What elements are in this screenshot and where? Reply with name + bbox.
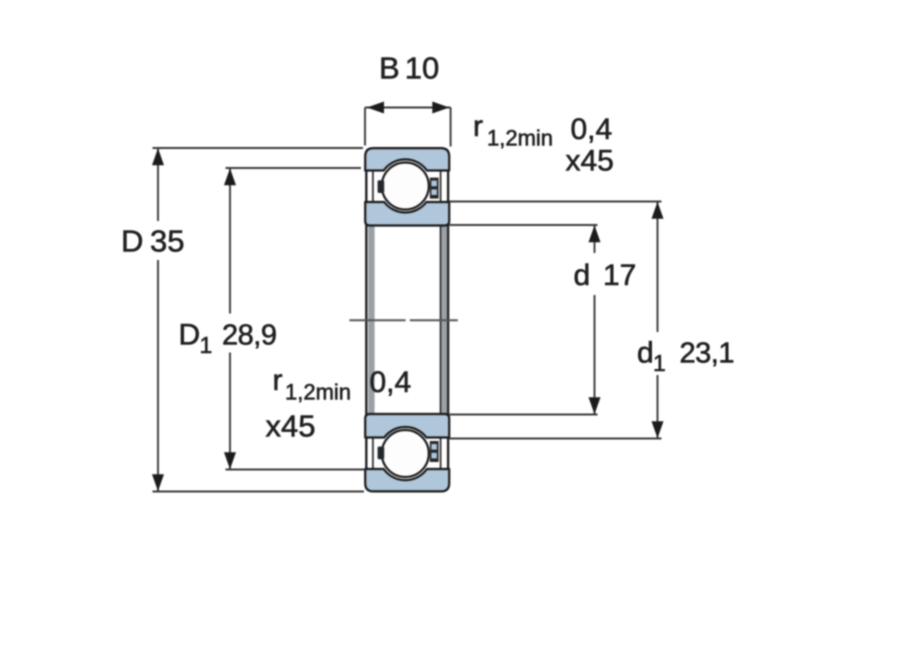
B arrow right bbox=[432, 102, 449, 114]
ball top bbox=[382, 163, 429, 210]
label d1 23,1 bbox=[637, 337, 734, 377]
D1 arrow bottom bbox=[224, 452, 236, 469]
label r 1,2min top right bbox=[473, 110, 553, 151]
d arrow bottom bbox=[589, 397, 601, 414]
svg-text:1: 1 bbox=[653, 350, 666, 376]
svg-text:23,1: 23,1 bbox=[680, 338, 734, 370]
svg-text:r: r bbox=[473, 110, 483, 143]
d1 arrow bottom bbox=[652, 421, 664, 438]
d1 extension lines bbox=[450, 201, 662, 203]
svg-text:r: r bbox=[273, 364, 283, 397]
label B 10 bbox=[379, 51, 439, 86]
inner ring top piece bbox=[365, 202, 449, 226]
svg-text:10: 10 bbox=[405, 51, 439, 86]
svg-text:x45: x45 bbox=[266, 409, 316, 444]
d1 arrow top bbox=[652, 202, 664, 219]
D1 dim line (broken for text) bbox=[229, 168, 231, 314]
d arrow top bbox=[589, 225, 601, 242]
svg-text:D: D bbox=[121, 224, 143, 259]
svg-text:1: 1 bbox=[200, 332, 213, 358]
label d 17 bbox=[574, 259, 637, 292]
d dim line (broken for text) bbox=[594, 225, 596, 253]
svg-text:17: 17 bbox=[603, 259, 636, 292]
B arrow left bbox=[367, 102, 384, 114]
d1 dim line (broken for text) bbox=[657, 202, 659, 333]
B dim line bbox=[365, 107, 451, 109]
svg-text:d: d bbox=[637, 337, 654, 370]
svg-text:35: 35 bbox=[150, 224, 184, 259]
svg-text:D: D bbox=[179, 319, 201, 352]
dimension lines bbox=[153, 108, 662, 492]
D arrow bottom bbox=[152, 474, 164, 491]
svg-text:x45: x45 bbox=[566, 145, 614, 178]
svg-text:B: B bbox=[379, 51, 400, 86]
inner ring bottom piece bbox=[365, 414, 449, 438]
D1 arrow top bbox=[224, 168, 236, 185]
svg-text:0,4: 0,4 bbox=[370, 366, 412, 399]
svg-text:28,9: 28,9 bbox=[222, 320, 276, 352]
svg-text:1,2min: 1,2min bbox=[285, 380, 351, 405]
bore shading band left bbox=[368, 226, 374, 414]
cage rivet right top bbox=[430, 178, 439, 199]
cage rivet left bottom bbox=[378, 447, 385, 460]
gap land lines bottom bbox=[373, 438, 441, 469]
ball bottom bbox=[382, 430, 429, 477]
svg-text:d: d bbox=[574, 259, 591, 292]
D1 extension lines bbox=[226, 167, 362, 169]
D arrow top bbox=[152, 148, 164, 165]
bearing side wall left bbox=[365, 166, 367, 474]
centerline bbox=[349, 319, 457, 321]
svg-text:0,4: 0,4 bbox=[571, 113, 613, 146]
B extension lines bbox=[364, 108, 366, 146]
bore shading band right bbox=[442, 226, 447, 414]
d extension lines bbox=[450, 224, 598, 226]
cage rivet left top bbox=[378, 180, 385, 193]
bearing side wall right bbox=[447, 166, 449, 474]
label D1 28,9 bbox=[179, 319, 277, 359]
gap land lines top bbox=[373, 171, 441, 202]
outer ring bottom piece bbox=[365, 469, 449, 491]
D dim line (broken for text) bbox=[157, 148, 159, 221]
bore edge line right bbox=[440, 226, 442, 414]
label D 35 bbox=[121, 224, 184, 259]
cage rivet right bottom bbox=[430, 441, 439, 462]
svg-text:1,2min: 1,2min bbox=[487, 126, 553, 151]
D extension lines bbox=[153, 147, 364, 149]
outer ring top piece bbox=[365, 148, 449, 170]
label r 1,2min left bbox=[273, 364, 352, 405]
